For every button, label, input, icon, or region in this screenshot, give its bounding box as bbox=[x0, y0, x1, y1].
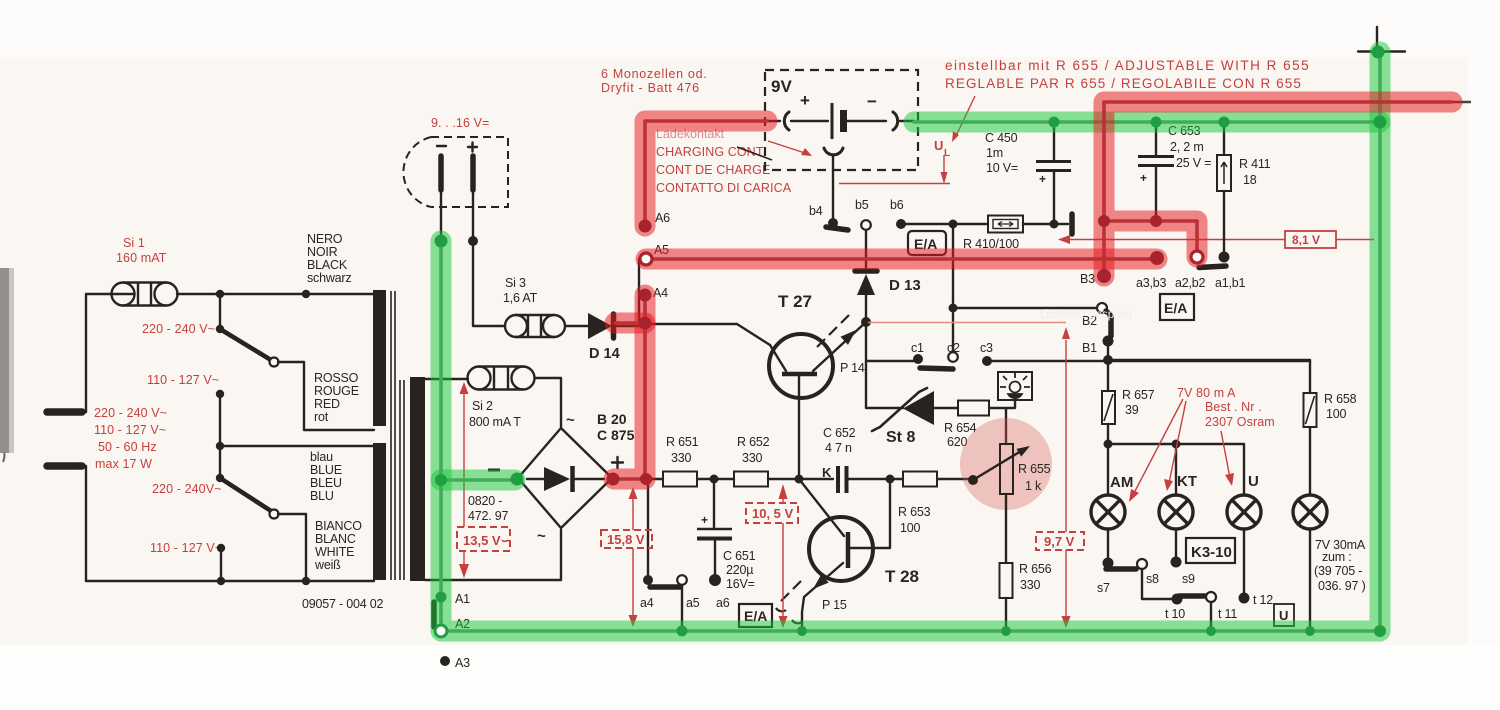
green node lamp4 ground bbox=[1305, 626, 1315, 636]
svg-text:R 654: R 654 bbox=[944, 421, 977, 435]
lamp feed wire bbox=[1108, 444, 1244, 495]
svg-text:ROUGE: ROUGE bbox=[314, 384, 359, 398]
wire s8 to t10 bbox=[1142, 569, 1172, 599]
svg-text:13,5 V∽: 13,5 V∽ bbox=[463, 533, 511, 548]
box U terminal bbox=[1274, 604, 1294, 626]
capacitor C450 bbox=[1036, 162, 1071, 171]
node lamp rail B1 bbox=[1103, 355, 1113, 365]
node a4 branch bbox=[644, 475, 653, 484]
box 9.7V bbox=[1036, 532, 1084, 550]
svg-text:~: ~ bbox=[566, 412, 575, 429]
svg-text:4 7 n: 4 7 n bbox=[825, 441, 852, 455]
wire to blau tap bbox=[220, 445, 374, 447]
wire under B3 red loop bbox=[1104, 102, 1452, 273]
node A1 bbox=[436, 592, 446, 602]
node C651 bbox=[710, 475, 719, 484]
pot R655 body bbox=[1000, 444, 1013, 494]
svg-text:R 652: R 652 bbox=[737, 435, 770, 449]
contact b5 bbox=[861, 220, 871, 230]
mains input terminal upper bbox=[47, 408, 82, 416]
svg-text:t 11: t 11 bbox=[1218, 607, 1237, 621]
wire node down to c2 bbox=[952, 308, 954, 352]
svg-text:BLACK: BLACK bbox=[307, 258, 348, 272]
red arrow to KT lamp bbox=[1169, 401, 1186, 483]
svg-text:a4: a4 bbox=[640, 596, 654, 610]
switch bar B2-B1 bbox=[1106, 311, 1111, 340]
node A3 bbox=[440, 656, 450, 666]
svg-text:ROSSO: ROSSO bbox=[314, 371, 359, 385]
resistor R656 bbox=[1000, 563, 1013, 598]
red marker path battery plus to A6 bbox=[645, 121, 767, 226]
T28 emitter arrow bbox=[802, 563, 843, 631]
wire upper terminal to fuse Si1 bbox=[79, 294, 112, 412]
svg-text:WHITE: WHITE bbox=[315, 545, 354, 559]
svg-text:RED: RED bbox=[314, 397, 340, 411]
red arrow to U lamp bbox=[1221, 431, 1230, 478]
DC input pin right bbox=[470, 156, 476, 190]
battery internal wires bbox=[791, 120, 886, 122]
svg-text:330: 330 bbox=[1020, 578, 1041, 592]
wire bulb stub bbox=[1014, 400, 1016, 408]
node c1 bbox=[913, 354, 923, 364]
svg-text:A3: A3 bbox=[455, 656, 470, 670]
wire C653 top bbox=[1155, 122, 1157, 156]
node b4 bbox=[828, 218, 838, 228]
left page-edge shadow bbox=[0, 268, 9, 453]
wire cup contact to b4 bbox=[832, 155, 834, 222]
svg-text:c3: c3 bbox=[980, 341, 993, 355]
green core main loop bbox=[441, 52, 1380, 631]
svg-text:a6: a6 bbox=[716, 596, 730, 610]
wire C651 bottom to ground bbox=[714, 540, 716, 576]
wire switch1 to ROSSO tap bbox=[278, 362, 374, 430]
svg-text:a3,b3: a3,b3 bbox=[1136, 276, 1167, 290]
bulb symbol box bbox=[998, 372, 1032, 400]
box 8.1V bbox=[1285, 231, 1336, 248]
svg-text:CONTATTO DI CARICA: CONTATTO DI CARICA bbox=[656, 181, 792, 195]
bridge plus label bbox=[612, 457, 623, 468]
T28 base lead bbox=[848, 479, 890, 548]
box 10.5V bbox=[746, 503, 798, 523]
wire left pin down bbox=[440, 190, 442, 631]
red marker path A4 to bridge bbox=[614, 295, 645, 479]
svg-text:zum :: zum : bbox=[1322, 550, 1352, 564]
svg-text:schwarz: schwarz bbox=[307, 271, 351, 285]
wire AM lamp bbox=[1107, 444, 1109, 495]
svg-text:Si 1: Si 1 bbox=[123, 236, 145, 250]
svg-text:s9: s9 bbox=[1182, 572, 1195, 586]
resistor R652 bbox=[734, 472, 768, 487]
resistor R654 bbox=[958, 401, 989, 416]
charging cup contact bbox=[824, 148, 843, 155]
wire KT lamp bbox=[1175, 444, 1177, 495]
svg-text:9. . .16 V=: 9. . .16 V= bbox=[431, 116, 489, 130]
svg-text:50 - 60 Hz: 50 - 60 Hz bbox=[98, 440, 157, 454]
switch bar A1-A2 bbox=[431, 602, 437, 627]
contact t11 bbox=[1206, 592, 1216, 602]
battery dashed box bbox=[765, 70, 918, 170]
DC input pin left bbox=[438, 156, 444, 190]
fuse Si2 bbox=[468, 367, 535, 390]
svg-text:t 12: t 12 bbox=[1253, 593, 1273, 607]
green node A1 bbox=[436, 592, 447, 603]
wire b6 branch down to B2 row bbox=[952, 224, 954, 308]
transformer core laminations bbox=[391, 291, 404, 580]
DC input polarity minus bbox=[437, 145, 446, 147]
svg-text:+: + bbox=[800, 91, 810, 110]
node a4 bbox=[643, 575, 653, 585]
red arrow UL down bbox=[943, 155, 945, 172]
node R653 left bbox=[886, 475, 895, 484]
wire battery minus rail to right bbox=[914, 121, 1380, 123]
switch bar a1-a2 bbox=[1199, 266, 1226, 268]
leader line battery box to contact bbox=[737, 147, 772, 160]
wire AM lamp to s7 bbox=[1107, 529, 1109, 563]
svg-text:−: − bbox=[867, 92, 877, 111]
green node ground corner bbox=[1374, 625, 1386, 637]
wire lamp aux to ground bbox=[1309, 529, 1311, 631]
svg-text:R 656: R 656 bbox=[1019, 562, 1052, 576]
svg-text:T 28: T 28 bbox=[885, 567, 919, 586]
wire lamp rail to R658 bbox=[1108, 360, 1310, 393]
wire node down to St8 bbox=[866, 361, 903, 408]
measure arrow 13.5V bbox=[463, 393, 465, 567]
red core top loop bbox=[1104, 102, 1452, 276]
svg-text:Si 3: Si 3 bbox=[505, 276, 526, 290]
node t10 bbox=[1172, 594, 1183, 605]
svg-text:R 657: R 657 bbox=[1122, 388, 1155, 402]
red marker path A5 bbox=[646, 249, 1157, 270]
svg-text:39: 39 bbox=[1125, 403, 1139, 417]
svg-text:2307 Osram: 2307 Osram bbox=[1205, 415, 1275, 429]
green marker branch bridge minus bbox=[441, 470, 515, 491]
green node R656 ground bbox=[1001, 626, 1011, 636]
wire fuse Si1 to NERO tap bbox=[177, 293, 374, 295]
T28 collector lead bbox=[799, 479, 844, 536]
node switch2 pivot bbox=[216, 474, 224, 482]
red node loop junction bbox=[1098, 215, 1110, 227]
green core branch bbox=[441, 478, 516, 482]
wire R657 bottom to lamp row bbox=[1107, 424, 1109, 444]
node a6 bbox=[709, 574, 721, 586]
switch bar t10 bbox=[1179, 593, 1206, 599]
svg-text:~: ~ bbox=[537, 528, 546, 545]
transformer secondary winding bbox=[410, 377, 425, 581]
svg-text:800 mA T: 800 mA T bbox=[469, 415, 521, 429]
svg-text:R 653: R 653 bbox=[898, 505, 931, 519]
node T27 emitter bbox=[861, 317, 871, 327]
svg-text:C 450: C 450 bbox=[985, 131, 1018, 145]
svg-text:c1: c1 bbox=[911, 341, 924, 355]
red core A4 bbox=[614, 295, 645, 479]
red node bridge plus bbox=[607, 473, 620, 486]
box 15.8V bbox=[601, 530, 652, 548]
switch bar b4 bbox=[826, 227, 848, 230]
diode D13 bbox=[855, 268, 877, 274]
svg-text:t 10: t 10 bbox=[1165, 607, 1185, 621]
svg-text:R 655: R 655 bbox=[1018, 462, 1051, 476]
red contact A5 bbox=[640, 253, 652, 265]
wire 110 tap to bottom rail bbox=[220, 548, 222, 581]
svg-text:1,6 AT: 1,6 AT bbox=[503, 291, 538, 305]
red marker stub D14 bbox=[615, 313, 645, 334]
svg-text:T 27: T 27 bbox=[778, 292, 812, 311]
T27 collector lead bbox=[770, 345, 786, 371]
transformer primary winding lower bbox=[373, 443, 386, 580]
green node C450 rail bbox=[1049, 117, 1060, 128]
green node bridge branch bbox=[435, 474, 447, 486]
svg-text:330: 330 bbox=[742, 451, 763, 465]
svg-text:CHARGING CONT: CHARGING CONT bbox=[656, 145, 764, 159]
battery cell plates bbox=[831, 103, 834, 139]
green node R411 rail bbox=[1219, 117, 1230, 128]
wire R654 to pot top bbox=[989, 408, 1014, 444]
red arrow to AM lamp bbox=[1133, 399, 1183, 495]
svg-text:15,8 V: 15,8 V bbox=[607, 532, 645, 547]
wire Si2 to bridge top bbox=[535, 378, 561, 427]
svg-text:1 k: 1 k bbox=[1025, 479, 1042, 493]
node c3 bbox=[982, 356, 992, 366]
P15 trimmer dashes bbox=[781, 581, 801, 601]
node blau tap branch bbox=[216, 442, 224, 450]
wire C653 bottom to B row bbox=[1155, 166, 1157, 221]
battery terminal stubs bbox=[768, 120, 914, 122]
green node T28 ground bbox=[797, 626, 807, 636]
svg-text:a5: a5 bbox=[686, 596, 700, 610]
wire under A5 red path bbox=[646, 258, 1157, 260]
node bottom rail at x221 bbox=[217, 577, 225, 585]
wire A5-A4 link bbox=[638, 259, 640, 326]
wire R410 to contact bar bbox=[1023, 223, 1068, 225]
wire switch2 to BIANCO bottom bbox=[278, 514, 306, 581]
svg-text:25 V =: 25 V = bbox=[1176, 156, 1211, 170]
svg-text:Dryfit - Batt 476: Dryfit - Batt 476 bbox=[601, 81, 700, 95]
wire KT lamp to s9 bbox=[1175, 529, 1177, 562]
svg-text:C 652: C 652 bbox=[823, 426, 856, 440]
red core A5 bbox=[646, 257, 1157, 261]
svg-text:E/A: E/A bbox=[1164, 300, 1187, 316]
thin red line T27 node to 9.7V arrow bbox=[868, 322, 1066, 324]
wire D14 to node A4 junction bbox=[617, 325, 645, 327]
resistor R658 bbox=[1304, 393, 1317, 427]
wire node down to c1 row bbox=[866, 322, 914, 361]
node b6 bbox=[896, 219, 906, 229]
antenna cross top right bbox=[1358, 27, 1405, 57]
wire R657 top bbox=[1107, 360, 1109, 391]
T28 base bar bbox=[846, 532, 851, 568]
wire A4 junction down to bridge plus bbox=[613, 295, 645, 479]
wire switch1 pivot stub bbox=[219, 294, 221, 330]
svg-text:CONT DE CHARGE: CONT DE CHARGE bbox=[656, 163, 770, 177]
wire a4 down bbox=[647, 479, 649, 578]
svg-text:Best . Nr .: Best . Nr . bbox=[1205, 400, 1262, 414]
red core battery to A6 bbox=[645, 121, 767, 226]
wire R411 bottom to a1b1 bbox=[1223, 191, 1225, 257]
svg-text:BLANC: BLANC bbox=[315, 532, 356, 546]
green node bridge minus bbox=[511, 473, 524, 486]
battery left jaw contact bbox=[784, 112, 789, 130]
svg-text:16V=: 16V= bbox=[726, 577, 755, 591]
svg-text:C 651: C 651 bbox=[723, 549, 756, 563]
node lamp row left bbox=[1104, 440, 1113, 449]
svg-text:K: K bbox=[822, 465, 832, 480]
green node DC pin bbox=[435, 235, 448, 248]
svg-text:c2: c2 bbox=[947, 341, 960, 355]
switch1 arm bbox=[216, 325, 224, 333]
wire t11 to ground bbox=[1210, 602, 1212, 631]
node right pin bbox=[468, 236, 478, 246]
svg-text:R 411: R 411 bbox=[1239, 157, 1271, 171]
svg-text:110 - 127 V~: 110 - 127 V~ bbox=[150, 541, 222, 555]
svg-text:rot: rot bbox=[314, 410, 329, 424]
stray print marks left edge bbox=[0, 291, 4, 328]
svg-text:BLUE: BLUE bbox=[310, 463, 342, 477]
svg-text:a1,b1: a1,b1 bbox=[1215, 276, 1246, 290]
svg-text:18: 18 bbox=[1243, 173, 1257, 187]
pot R655 wiper arrow bbox=[973, 448, 1026, 480]
wire fuse Si3 to D14 bbox=[565, 325, 588, 327]
resistor R653 bbox=[903, 472, 937, 487]
svg-text:8,1 V: 8,1 V bbox=[1292, 233, 1320, 247]
node T27 base / C652 bbox=[795, 475, 804, 484]
green marker path main loop bbox=[441, 52, 1380, 631]
wire b6 to R410 bbox=[901, 223, 988, 225]
wire R651 to R652 bbox=[697, 478, 734, 480]
svg-text:110 - 127 V~: 110 - 127 V~ bbox=[147, 373, 219, 387]
svg-text:b4: b4 bbox=[809, 204, 823, 218]
svg-text:A1: A1 bbox=[455, 592, 470, 606]
fuse Si3 bbox=[505, 315, 565, 337]
svg-text:BLU: BLU bbox=[310, 489, 334, 503]
E/A box right bbox=[1160, 294, 1194, 320]
resistor R410 bbox=[988, 216, 1023, 233]
svg-text:NOIR: NOIR bbox=[307, 245, 338, 259]
svg-text:St 8: St 8 bbox=[886, 429, 915, 446]
green node a5 ground bbox=[677, 626, 688, 637]
wire R652 to T27 base node bbox=[768, 478, 833, 480]
svg-text:6 Monozellen od.: 6 Monozellen od. bbox=[601, 67, 707, 81]
transistor T27 bbox=[769, 334, 833, 398]
svg-text:s7: s7 bbox=[1097, 581, 1110, 595]
wire U lamp to t12 bbox=[1243, 529, 1245, 595]
node b6-c2 branch bbox=[949, 220, 958, 229]
T27 base lead down bbox=[798, 376, 800, 479]
capacitor C652 bbox=[838, 466, 847, 493]
svg-text:einstellbar mit R 655 / ADJUS: einstellbar mit R 655 / ADJUSTABLE WITH … bbox=[945, 58, 1310, 73]
wire c3 to lamps rail bbox=[987, 360, 1310, 362]
bridge internal diode bbox=[544, 467, 570, 491]
measure arrow 15.8V bbox=[632, 494, 634, 618]
node pot wiper bbox=[968, 475, 978, 485]
svg-text:a2,b2: a2,b2 bbox=[1175, 276, 1206, 290]
switch bar c1 bbox=[920, 368, 953, 369]
svg-text:09057 - 004 02: 09057 - 004 02 bbox=[302, 597, 384, 611]
svg-text:100: 100 bbox=[900, 521, 921, 535]
red node A4 bbox=[639, 289, 652, 302]
node B2 branch bbox=[949, 304, 958, 313]
green core battery rail bbox=[914, 120, 1380, 124]
switch1 contact circle bbox=[270, 358, 279, 367]
svg-text:Lichtnetz gespeist: Lichtnetz gespeist bbox=[1040, 309, 1133, 321]
wire secondary bottom to bridge bbox=[425, 530, 561, 580]
green contact A2 bbox=[435, 625, 447, 637]
transistor T28 bbox=[809, 517, 873, 581]
wire C450 bottom to b-row bbox=[1053, 172, 1055, 224]
svg-text:10 V=: 10 V= bbox=[986, 161, 1018, 175]
wire B1 to lamp rail bbox=[1107, 341, 1109, 360]
switch bar a4 bbox=[650, 584, 680, 590]
E/A box input bbox=[908, 231, 946, 255]
red arrow to charging contact bbox=[768, 141, 808, 154]
node left pin bbox=[436, 236, 446, 246]
svg-text:220µ: 220µ bbox=[726, 563, 753, 577]
lamp U bbox=[1227, 495, 1261, 529]
switch2 arm bbox=[220, 478, 271, 511]
wire C651 top bbox=[713, 479, 715, 529]
svg-text:B 20: B 20 bbox=[597, 411, 627, 427]
svg-text:160 mAT: 160 mAT bbox=[116, 251, 167, 265]
DC input socket dashed outline bbox=[403, 137, 508, 207]
svg-text:110 - 127 V~: 110 - 127 V~ bbox=[94, 423, 166, 437]
svg-text:weiß: weiß bbox=[314, 558, 341, 572]
wire a5 to ground rail bbox=[681, 585, 683, 631]
ghost print artifacts bbox=[1040, 309, 1133, 321]
svg-text:Si 2: Si 2 bbox=[472, 399, 493, 413]
red node A4 corner bbox=[640, 473, 652, 485]
contact B2 bbox=[1097, 303, 1107, 313]
wire D13 to T27 node bbox=[865, 295, 867, 322]
node s7 bbox=[1103, 558, 1114, 569]
bridge rectifier B20 diamond bbox=[518, 428, 612, 528]
box 13.5V bbox=[457, 527, 510, 551]
node B1 bbox=[1103, 336, 1114, 347]
zener St8 bbox=[903, 391, 934, 425]
svg-text:max 17 W: max 17 W bbox=[95, 457, 152, 471]
wire right pin to fuse Si3 bbox=[473, 190, 504, 326]
svg-text:2, 2 m: 2, 2 m bbox=[1170, 140, 1204, 154]
svg-text:9,7 V: 9,7 V bbox=[1044, 534, 1075, 549]
capacitor C651 bbox=[697, 528, 732, 531]
node C450 bottom junction bbox=[1050, 220, 1059, 229]
DC input polarity plus bbox=[468, 143, 477, 152]
svg-text:U: U bbox=[1248, 473, 1259, 490]
green node C653 rail bbox=[1151, 117, 1162, 128]
wire R658 to lamp4 bbox=[1309, 427, 1311, 495]
svg-text:036. 97 ): 036. 97 ) bbox=[1318, 579, 1366, 593]
contact s8 bbox=[1137, 559, 1147, 569]
switch2 contact circle bbox=[270, 510, 279, 519]
measure arrow 10.5V bbox=[782, 497, 784, 618]
node s9 bbox=[1171, 557, 1182, 568]
svg-text:BLEU: BLEU bbox=[310, 476, 342, 490]
svg-text:220 - 240 V~: 220 - 240 V~ bbox=[94, 406, 167, 420]
svg-text:b6: b6 bbox=[890, 198, 904, 212]
ground rail A2 bbox=[446, 630, 1380, 632]
svg-text:330: 330 bbox=[671, 451, 692, 465]
svg-text:REGLABLE PAR R 655 / REGOLA: REGLABLE PAR R 655 / REGOLABILE CON R 65… bbox=[945, 76, 1302, 91]
svg-text:7V 80 m A: 7V 80 m A bbox=[1177, 386, 1236, 400]
svg-text:R 658: R 658 bbox=[1324, 392, 1357, 406]
node bottom rail at x306 bbox=[302, 577, 310, 585]
wire R653 to pot wiper bbox=[937, 478, 973, 480]
svg-text:1m: 1m bbox=[986, 146, 1003, 160]
wire secondary top to fuse Si2 bbox=[425, 378, 468, 380]
red leader from einstellbar text bbox=[956, 96, 975, 136]
capacitor C653 bbox=[1138, 157, 1174, 166]
T27 emitter arrow bbox=[813, 322, 866, 371]
mains input terminal lower bbox=[47, 462, 82, 470]
wire St8 to R654 bbox=[933, 407, 958, 409]
